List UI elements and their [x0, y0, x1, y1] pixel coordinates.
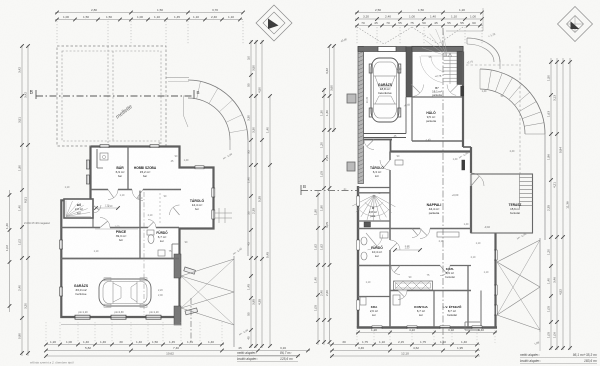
dimension chain right-plan far-left	[317, 190, 319, 345]
north arrow right plan	[558, 7, 593, 42]
window marks left plan	[60, 145, 215, 296]
dimension chain left-plan bottom row1	[45, 344, 224, 346]
interior walls right plan	[358, 152, 481, 328]
curved exterior stair right plan	[480, 69, 545, 240]
extension lines bottom right plan	[357, 330, 495, 343]
fixtures right plan	[360, 160, 459, 305]
garage side door leaves	[184, 267, 198, 315]
driveway ramp hatch left plan	[181, 256, 234, 347]
fixtures left plan	[100, 153, 165, 256]
dimension chain left-plan right2	[255, 40, 257, 348]
stair room with winder stair left plan	[64, 199, 93, 218]
dimension chain right-plan bottom row3	[330, 355, 480, 357]
doors right plan	[364, 140, 485, 300]
interior walls left plan	[61, 146, 214, 259]
dimension chain left-plan bottom row2	[45, 350, 310, 352]
dimension chain right-plan right1	[550, 58, 552, 350]
dashed line above terrace	[466, 64, 519, 66]
interior stair right plan	[412, 27, 464, 98]
dimension chain left-plan top row1	[55, 12, 243, 14]
terrace edge dashed vertical	[519, 46, 521, 176]
small door dimension texts right plan	[344, 56, 515, 284]
garage walls right plan	[358, 47, 412, 184]
dimension chain right-plan bottom row2	[330, 350, 480, 352]
entry porch step	[465, 322, 480, 330]
dimension chain right-plan right4	[569, 58, 571, 350]
exterior walls left plan	[61, 147, 213, 326]
doors left plan	[100, 190, 180, 228]
roof edge line above canopy	[446, 30, 483, 32]
car in garage left plan	[99, 278, 163, 307]
dimension chain right-plan top row1	[355, 12, 483, 14]
hatch extension line	[539, 332, 541, 351]
centre axis line left plan	[190, 298, 192, 342]
dotted gable projection above garage and stair	[357, 27, 463, 44]
dimension chain right-plan right2	[556, 58, 558, 350]
extension lines from top chain	[57, 21, 243, 45]
dimension chain left-plan left inner	[21, 45, 23, 356]
section line B-B	[30, 90, 200, 99]
curved exterior stair left plan	[166, 78, 248, 257]
dimension chain left-plan right1	[250, 40, 252, 348]
window marks right plan	[357, 86, 498, 329]
winder stair right plan	[352, 195, 395, 227]
corridor details right plan	[366, 96, 422, 274]
pavement edge below garage	[61, 324, 181, 326]
terrace with exterior stair	[471, 174, 533, 233]
car in garage right plan	[369, 58, 401, 122]
HALO room walls	[412, 97, 463, 141]
extension lines right plan top	[357, 27, 482, 45]
dimension chain right-plan right3	[562, 58, 564, 350]
dimension chain left-plan top row2	[55, 19, 243, 21]
dimension chain right-plan top row2	[355, 18, 483, 20]
chimney bay left wall right plan	[347, 94, 356, 103]
exterior steps right of left plan wing	[214, 208, 233, 223]
building fill right plan	[358, 47, 463, 142]
extension lines bottom left plan	[46, 322, 222, 343]
dimension chain left-plan bottom row3	[45, 355, 300, 357]
dimension chain right-plan left mid	[329, 45, 331, 345]
dashed terrace outline upper storey projection	[57, 46, 166, 146]
corridor details left plan	[93, 193, 160, 229]
centre axis line bathroom left plan	[143, 192, 145, 315]
dimension chain right-plan left inner	[323, 88, 325, 345]
dimension chain left-plan right4	[269, 96, 271, 346]
dimension chain left-plan left outer	[27, 45, 29, 356]
small door dimension texts left plan	[65, 142, 189, 253]
dimension chain right-plan bottom row1	[330, 344, 480, 346]
curved canopy wall	[467, 38, 500, 69]
section line B right plan	[301, 190, 357, 192]
dimension chain right-plan bottom row0	[356, 332, 497, 334]
centre axis line right plan	[442, 28, 444, 345]
kitchen counter	[394, 281, 433, 290]
dimension chain right-plan left outer	[333, 45, 335, 132]
bathroom door arc right plan	[368, 235, 383, 250]
dimension chain left-plan far-left	[9, 190, 11, 312]
exterior walls right plan	[357, 52, 497, 328]
dimension chain left-plan right3	[261, 40, 263, 348]
north arrow left plan	[256, 5, 292, 41]
dimension chain right-plan top row3	[355, 25, 483, 27]
garage front wall windows	[75, 315, 161, 319]
driveway ramp hatch right plan	[497, 238, 540, 332]
